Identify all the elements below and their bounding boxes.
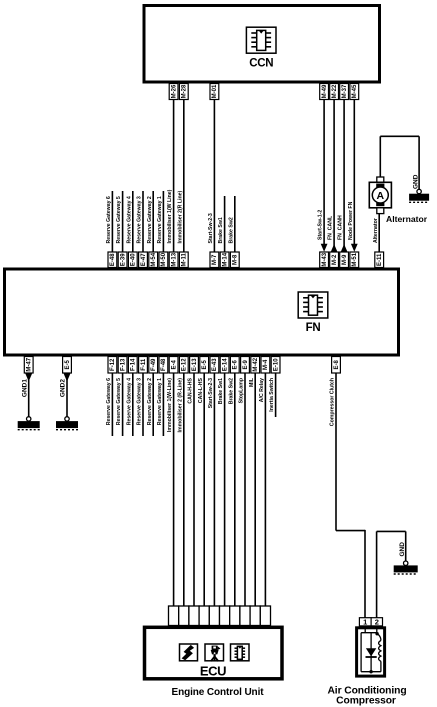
pin M-54 (FN top) bbox=[149, 252, 158, 268]
svg-text:Brake Sw2: Brake Sw2 bbox=[228, 378, 234, 404]
svg-text:Compressor Clutch: Compressor Clutch bbox=[330, 378, 336, 426]
pin M-9 (FN top) bbox=[340, 252, 349, 268]
svg-text:Reserve Gateway 6: Reserve Gateway 6 bbox=[106, 378, 112, 425]
svg-text:Start-Sw-2-3: Start-Sw-2-3 bbox=[208, 213, 214, 243]
pin M-11 (FN top) bbox=[179, 252, 188, 268]
svg-text:M-42: M-42 bbox=[253, 357, 259, 371]
svg-text:M-45: M-45 bbox=[352, 84, 358, 98]
svg-text:Reserve Gateway 1: Reserve Gateway 1 bbox=[157, 378, 163, 425]
svg-text:Brake Sw1: Brake Sw1 bbox=[218, 378, 224, 404]
svg-text:CAN-H-HS: CAN-H-HS bbox=[188, 377, 194, 403]
coil L (clutch coil) bbox=[377, 634, 381, 641]
svg-text:E-13: E-13 bbox=[192, 358, 198, 371]
pin F-49 (FN bottom) bbox=[149, 357, 158, 374]
pin E-5 (FN bottom) bbox=[200, 357, 209, 374]
wire FN to ECU at x=255.2 bbox=[254, 373, 256, 606]
ground GND1 bbox=[18, 417, 40, 430]
wire stub below FN at x=143.0 bbox=[142, 373, 144, 436]
svg-text:Reserve Gateway 2: Reserve Gateway 2 bbox=[147, 196, 153, 243]
pin F-11 (FN bottom) bbox=[139, 357, 148, 374]
wire immobiliser 2 (CCN M-28 to FN M-11) bbox=[183, 100, 185, 253]
wire FN to ECU at x=265.4 bbox=[264, 373, 266, 606]
ground GND (compressor) bbox=[394, 561, 418, 574]
svg-text:Immobiliser 1(W-Line): Immobiliser 1(W-Line) bbox=[167, 378, 173, 432]
pin F-13 (FN bottom) bbox=[118, 357, 127, 374]
pin M-43 (FN top) bbox=[320, 252, 329, 268]
wire FN to ECU at x=183.8 bbox=[183, 373, 185, 606]
svg-text:MIL: MIL bbox=[249, 377, 255, 387]
svg-text:1: 1 bbox=[363, 618, 367, 627]
svg-text:Alternator: Alternator bbox=[386, 214, 428, 224]
svg-text:GND2: GND2 bbox=[60, 379, 67, 397]
svg-text:E-14: E-14 bbox=[222, 358, 228, 371]
svg-text:E-5: E-5 bbox=[65, 359, 71, 369]
svg-text:M-26: M-26 bbox=[171, 84, 177, 98]
pin F-14 (FN bottom) bbox=[128, 357, 137, 374]
pin M-01 (CCN) bbox=[210, 84, 219, 100]
wire FN to ECU at x=234.8 bbox=[234, 373, 236, 606]
pin M-49 (CCN) bbox=[320, 84, 329, 100]
pin F-48 (FN bottom) bbox=[159, 357, 168, 374]
svg-text:Reserve Gateway 5: Reserve Gateway 5 bbox=[116, 196, 122, 243]
svg-text:GND1: GND1 bbox=[21, 379, 28, 397]
svg-text:Immobiliser 2(R Line): Immobiliser 2(R Line) bbox=[177, 190, 183, 243]
pin E-48 (FN top) bbox=[108, 252, 117, 268]
svg-text:M-11: M-11 bbox=[182, 252, 188, 266]
svg-text:ECU: ECU bbox=[200, 664, 226, 679]
svg-text:GND: GND bbox=[413, 174, 420, 189]
svg-text:FN_CANL: FN_CANL bbox=[328, 215, 334, 240]
svg-text:M-54: M-54 bbox=[151, 252, 157, 266]
wire stub above FN at x=143.0 bbox=[142, 191, 144, 252]
svg-text:E-8: E-8 bbox=[334, 359, 340, 369]
wire FN to ECU at x=224.6 bbox=[224, 373, 226, 606]
compressor pin box 1 bbox=[359, 618, 371, 627]
wire stub above FN at x=224.6 bbox=[224, 196, 226, 252]
pin M-22 (CCN) bbox=[330, 84, 339, 100]
wire stub below FN at x=163.4 bbox=[162, 373, 164, 436]
wire stub above FN at x=112.4 bbox=[111, 191, 113, 252]
svg-text:Inertia Switch: Inertia Switch bbox=[269, 378, 275, 412]
pin M-8 (FN top) bbox=[230, 252, 239, 268]
svg-text:M-51: M-51 bbox=[352, 252, 358, 266]
pin E-14 (FN bottom) bbox=[220, 357, 229, 374]
wire FN_CANH (CCN M-37 to FN M-9) bbox=[341, 100, 348, 253]
svg-text:Reserve Gateway 2: Reserve Gateway 2 bbox=[147, 378, 153, 425]
wire stub below FN at x=112.4 bbox=[111, 373, 113, 436]
pin M-4 (FN bottom) bbox=[261, 357, 270, 374]
pin E-4 (FN bottom) bbox=[169, 357, 178, 374]
wire alternator top to ground bbox=[380, 136, 419, 189]
wire node power FN (CCN M-45 to FN M-51) bbox=[351, 100, 358, 252]
svg-text:M-28: M-28 bbox=[182, 84, 188, 98]
pin E-12 (FN bottom) bbox=[179, 357, 188, 374]
svg-text:M-2: M-2 bbox=[332, 254, 338, 265]
diode D (flyback) bbox=[366, 648, 376, 656]
pin M-45 (CCN) bbox=[350, 84, 359, 100]
wire stub above FN at x=234.8 bbox=[234, 196, 236, 252]
svg-text:M-01: M-01 bbox=[212, 84, 218, 98]
svg-text:M-22: M-22 bbox=[332, 84, 338, 98]
svg-text:M-37: M-37 bbox=[342, 84, 348, 98]
wire FN_CANL (CCN M-22 to FN M-2) bbox=[331, 100, 338, 253]
svg-text:E-5: E-5 bbox=[202, 359, 208, 369]
svg-text:Brake Sw1: Brake Sw1 bbox=[218, 217, 224, 243]
pin E-40 (FN top) bbox=[128, 252, 137, 268]
svg-text:Reserve Gateway 4: Reserve Gateway 4 bbox=[126, 196, 132, 243]
alternator symbol bbox=[369, 177, 391, 214]
pin M-47 (FN bottom) bbox=[24, 357, 33, 374]
ecu icon lightning bbox=[180, 644, 198, 661]
wire stub below FN at x=122.6 bbox=[122, 373, 124, 436]
svg-text:Reserve Gateway 3: Reserve Gateway 3 bbox=[137, 378, 143, 425]
pin E-5 (FN bottom) bbox=[63, 357, 72, 374]
pin M-50 (FN top) bbox=[159, 252, 168, 268]
pin M-26 (CCN) bbox=[169, 84, 178, 100]
svg-text:Reserve Gateway 6: Reserve Gateway 6 bbox=[106, 196, 112, 243]
svg-text:2: 2 bbox=[375, 618, 379, 627]
svg-text:E-47: E-47 bbox=[141, 253, 147, 266]
ecu icon spark plug / injector bbox=[205, 644, 224, 661]
svg-text:Reserve Gateway 3: Reserve Gateway 3 bbox=[137, 196, 143, 243]
wire stub above FN at x=132.8 bbox=[132, 191, 134, 252]
svg-text:GND: GND bbox=[399, 542, 406, 557]
pin M-13 (FN top) bbox=[169, 252, 178, 268]
pin E-6 (FN bottom) bbox=[230, 357, 239, 374]
svg-text:Start-Sw-1-2: Start-Sw-1-2 bbox=[318, 210, 324, 240]
wire start-sw-2-3 (CCN M-01 to FN M-7) bbox=[213, 100, 215, 253]
wire stub below FN at x=153.2 bbox=[152, 373, 154, 436]
svg-text:E-43: E-43 bbox=[212, 358, 218, 371]
pin M-37 (CCN) bbox=[340, 84, 349, 100]
pin M-51 (FN top) bbox=[350, 252, 359, 268]
wire stub above FN at x=163.4 bbox=[162, 191, 164, 252]
svg-text:Brake Sw2: Brake Sw2 bbox=[228, 217, 234, 243]
svg-text:FN_CANH: FN_CANH bbox=[338, 215, 344, 240]
chip icon FN bbox=[298, 292, 328, 318]
wire FN to ECU at x=245.0 bbox=[244, 373, 246, 606]
svg-text:M-14: M-14 bbox=[222, 252, 228, 266]
svg-text:CCN: CCN bbox=[249, 58, 273, 70]
svg-text:Reserve Gateway 4: Reserve Gateway 4 bbox=[126, 378, 132, 425]
pin M-42 (FN bottom) bbox=[251, 357, 260, 374]
wire GND2 (FN E-5 to ground) bbox=[64, 373, 71, 417]
pin F-12 (FN bottom) bbox=[108, 357, 117, 374]
wire FN to ECU at x=204.2 bbox=[203, 373, 205, 606]
svg-text:Node Power FN: Node Power FN bbox=[348, 201, 354, 240]
svg-text:FN: FN bbox=[306, 322, 321, 334]
wire start-sw-1-2 (CCN M-49 to FN M-43) bbox=[321, 100, 328, 252]
pin M-28 (CCN) bbox=[179, 84, 188, 100]
svg-text:E-40: E-40 bbox=[131, 253, 137, 266]
svg-text:E-48: E-48 bbox=[110, 253, 116, 266]
svg-text:F-13: F-13 bbox=[120, 358, 126, 371]
pin M-2 (FN top) bbox=[330, 252, 339, 268]
pin E-10 (FN bottom) bbox=[271, 357, 280, 374]
chip icon CCN bbox=[246, 27, 276, 53]
svg-text:Start-Sw-2-3: Start-Sw-2-3 bbox=[208, 378, 214, 408]
svg-text:A: A bbox=[377, 190, 385, 202]
wire alternator to FN E-11 bbox=[378, 214, 380, 252]
ground GND (alternator) bbox=[409, 189, 429, 202]
svg-text:Compressor: Compressor bbox=[336, 696, 396, 707]
pin M-7 (FN top) bbox=[210, 252, 219, 268]
module ECU box bbox=[145, 627, 283, 679]
svg-text:E-12: E-12 bbox=[182, 358, 188, 371]
svg-text:Reserve Gateway 1: Reserve Gateway 1 bbox=[157, 196, 163, 243]
svg-text:E-39: E-39 bbox=[120, 253, 126, 266]
svg-text:Immobiliser 2 (R-Line): Immobiliser 2 (R-Line) bbox=[177, 378, 183, 433]
svg-text:M-4: M-4 bbox=[263, 359, 269, 370]
wire GND1 (FN M-47 to ground) bbox=[25, 373, 32, 417]
pin E-13 (FN bottom) bbox=[190, 357, 199, 374]
wire immobiliser 1 (CCN M-26 to FN M-13) bbox=[173, 100, 175, 253]
svg-text:StopLamp: StopLamp bbox=[239, 378, 245, 403]
svg-text:Engine Control Unit: Engine Control Unit bbox=[172, 687, 265, 698]
svg-text:M-13: M-13 bbox=[171, 252, 177, 266]
pin E-47 (FN top) bbox=[139, 252, 148, 268]
wire stub above FN at x=153.2 bbox=[152, 191, 154, 252]
svg-text:M-7: M-7 bbox=[212, 254, 218, 265]
svg-text:E-11: E-11 bbox=[377, 253, 383, 266]
svg-text:CAN-L-HS: CAN-L-HS bbox=[198, 377, 204, 403]
svg-text:E-6: E-6 bbox=[233, 359, 239, 369]
ground GND2 bbox=[56, 417, 78, 430]
wire FN to ECU at x=194.0 bbox=[193, 373, 195, 606]
module air conditioning compressor box bbox=[357, 628, 385, 676]
svg-text:M-47: M-47 bbox=[27, 357, 33, 371]
wire compressor pin 2 to ground bbox=[377, 531, 406, 617]
pin E-8 (FN bottom) bbox=[332, 357, 341, 374]
pin M-14 (FN top) bbox=[220, 252, 229, 268]
pin E-39 (FN top) bbox=[118, 252, 127, 268]
module CCN box bbox=[144, 6, 380, 83]
ECU pin boxes row bbox=[169, 606, 271, 626]
svg-text:E-9: E-9 bbox=[243, 359, 249, 369]
svg-text:E-4: E-4 bbox=[171, 359, 177, 369]
svg-text:F-11: F-11 bbox=[141, 358, 147, 371]
svg-text:A/C Relay: A/C Relay bbox=[259, 378, 265, 402]
svg-text:M-9: M-9 bbox=[342, 254, 348, 265]
compressor clutch internal circuit bbox=[361, 626, 381, 674]
pin E-11 (FN top) bbox=[375, 252, 384, 268]
svg-text:F-49: F-49 bbox=[151, 358, 157, 371]
svg-text:Immobiliser 1(W Line): Immobiliser 1(W Line) bbox=[167, 189, 173, 243]
ecu icon chip bbox=[231, 644, 250, 661]
svg-text:M-43: M-43 bbox=[322, 252, 328, 266]
pin E-43 (FN bottom) bbox=[210, 357, 219, 374]
wire FN to ECU at x=173.6 bbox=[173, 373, 175, 606]
compressor pin box 2 bbox=[371, 618, 382, 627]
wire stub E-10 inertia switch bbox=[275, 373, 277, 417]
wire stub above FN at x=122.6 bbox=[122, 191, 124, 252]
svg-text:Alternator: Alternator bbox=[373, 218, 379, 243]
svg-text:F-12: F-12 bbox=[110, 358, 116, 371]
svg-text:M-50: M-50 bbox=[161, 252, 167, 266]
pin E-9 (FN bottom) bbox=[241, 357, 250, 374]
svg-text:M-8: M-8 bbox=[233, 254, 239, 265]
wire compressor clutch (FN E-8 to compressor pin 1) bbox=[336, 373, 365, 618]
svg-text:E-10: E-10 bbox=[273, 358, 279, 371]
wire stub below FN at x=132.8 bbox=[132, 373, 134, 436]
svg-text:F-48: F-48 bbox=[161, 358, 167, 371]
svg-text:Reserve Gateway 5: Reserve Gateway 5 bbox=[116, 378, 122, 425]
wire FN to ECU at x=214.4 bbox=[213, 373, 215, 606]
svg-text:F-14: F-14 bbox=[131, 358, 137, 371]
svg-text:M-49: M-49 bbox=[322, 84, 328, 98]
module FN box bbox=[5, 269, 399, 355]
